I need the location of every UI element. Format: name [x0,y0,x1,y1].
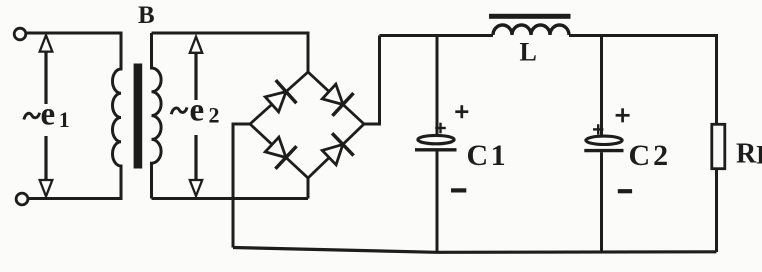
top rail left of inductor [380,34,494,37]
bridge edges (wires) [250,72,364,124]
transformer primary winding [112,33,121,199]
wire secondary bottom [152,197,309,200]
svg-text:C2: C2 [629,139,669,172]
svg-text:L: L [520,38,537,67]
svg-text:e: e [41,96,56,132]
bottom bus wire [233,248,717,253]
svg-text:2: 2 [209,102,220,127]
svg-text:RL: RL [736,139,762,170]
diode D3 (bottom-left) [265,137,296,169]
wire RL bottom [715,169,718,252]
resistor RL body [712,124,725,168]
wire bridge bottom node drop [307,178,310,199]
transformer core [134,64,143,169]
plus sign (C2, large) [616,108,630,122]
svg-text:C1: C1 [467,139,506,172]
capacitor C2 branch wire bottom [600,152,603,252]
svg-text:e: e [190,92,205,128]
wire top-left input to primary [27,32,123,35]
capacitor C1 branch wire bottom [436,152,439,252]
plus sign (C1, large) [455,105,468,118]
plus sign (C2, small at plate) [593,124,603,134]
inductor core bar [489,14,571,19]
svg-text:B: B [138,2,155,29]
wire bottom-left input to primary [29,197,123,200]
arrow e2 (voltage arrow) [190,37,202,196]
terminal T2 (bottom-left input) [16,193,28,205]
top rail right of inductor, down to RL [569,36,717,125]
svg-text:1: 1 [59,107,70,132]
minus sign (C1) [451,188,466,192]
minus sign (C2) [618,189,632,193]
wire bridge right node up to top rail [364,36,380,125]
capacitor C1 branch wire top [436,36,439,136]
diode D4 (bottom-right) [322,133,353,165]
diode D2 (top-right) [322,84,353,116]
arrow e1 (voltage arrow) [40,35,53,196]
capacitor C1 top plate [418,135,454,143]
transformer secondary winding [152,33,162,199]
terminal T1 (top-left input) [14,28,26,40]
capacitor C2 bottom plate [584,149,623,152]
label ~e2 [171,92,219,128]
wire bridge left node down to bus [233,124,250,248]
diode D1 (top-left) [265,80,296,112]
inductor L [493,25,569,35]
label ~e1 [24,96,70,132]
capacitor C2 branch wire top [600,36,603,136]
capacitor C2 top plate [586,136,622,144]
wire secondary top to bridge top node [152,33,309,72]
capacitor C1 bottom plate [415,148,457,151]
plus sign (C1, small at plate) [435,123,446,134]
